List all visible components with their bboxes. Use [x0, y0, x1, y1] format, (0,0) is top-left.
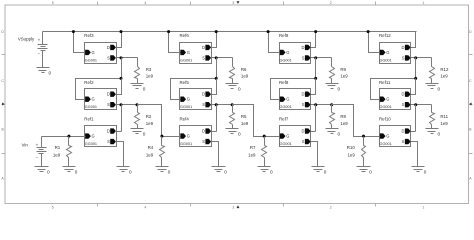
ground (below R3) — [131, 84, 146, 92]
subsystem Ref6 — [180, 33, 212, 64]
svg-text:G: G — [187, 50, 190, 55]
svg-text:GG001: GG001 — [280, 58, 292, 62]
svg-text:0: 0 — [168, 169, 171, 174]
svg-text:R12: R12 — [440, 67, 449, 72]
junction: rail at Ref9.D — [314, 30, 317, 33]
svg-text:GG001: GG001 — [85, 105, 97, 109]
svg-text:0: 0 — [270, 169, 273, 174]
wire: Ref2.S down to Ref1.D — [121, 105, 123, 132]
wire: Ref9.S down to Ref8 — [315, 58, 317, 79]
svg-text:G: G — [92, 134, 95, 139]
svg-text:0: 0 — [129, 169, 132, 174]
ground (below R6) — [226, 84, 242, 92]
subsystem Ref7 — [279, 117, 311, 147]
svg-text:0: 0 — [424, 169, 427, 174]
svg-text:G: G — [286, 97, 289, 102]
wire: Ref8.S to Ref10.G link — [332, 105, 380, 137]
svg-text:0: 0 — [143, 86, 146, 91]
wire: Ref9.D to supply rail — [311, 32, 316, 48]
svg-text:0: 0 — [324, 169, 327, 174]
svg-text:Ref2: Ref2 — [84, 80, 94, 85]
svg-text:D: D — [302, 45, 305, 50]
wire: Ref11.S down to Ref10.D — [415, 105, 417, 132]
resistor R9 — [330, 58, 349, 84]
svg-text:0: 0 — [438, 86, 441, 91]
junction: Ref11.S — [414, 103, 417, 106]
resistor R2 — [135, 105, 154, 129]
svg-text:D: D — [302, 92, 305, 97]
svg-text:1e9: 1e9 — [53, 153, 61, 158]
svg-text:S: S — [107, 102, 110, 107]
subsystem Ref11 — [379, 80, 411, 110]
ground (below R8) — [326, 129, 341, 137]
svg-text:3: 3 — [232, 1, 234, 5]
svg-text:D: D — [107, 45, 110, 50]
ground (below VSupply) — [37, 68, 52, 76]
wire: Ref5 gate loop — [171, 79, 217, 100]
wire: Ref11 gate loop — [371, 79, 416, 100]
ground (below R9) — [326, 84, 341, 92]
wire: Ref4.S to ground — [212, 142, 219, 167]
resistor R6 — [230, 58, 249, 84]
resistor R10 — [347, 137, 366, 167]
ground (below Ref1.S) — [117, 167, 133, 175]
wire: Ref2.D up to node — [117, 79, 122, 95]
svg-text:S: S — [402, 102, 405, 107]
ground (below R11) — [426, 129, 441, 137]
wire: Ref9.S node — [311, 57, 332, 59]
svg-text:4: 4 — [144, 1, 146, 5]
wire: Ref3.D to supply rail — [117, 32, 122, 48]
svg-text:0: 0 — [49, 71, 52, 76]
svg-text:Ref1: Ref1 — [84, 117, 94, 122]
resistor R4 — [146, 137, 165, 167]
svg-text:1: 1 — [423, 1, 425, 5]
wire: Ref2.S to Ref4.G link — [138, 105, 181, 137]
svg-text:D: D — [107, 129, 110, 134]
wire: Ref8.D up to node — [311, 79, 316, 95]
svg-text:1e9: 1e9 — [340, 121, 348, 126]
voltage source VSupply — [18, 32, 48, 68]
svg-text:GG001: GG001 — [280, 142, 292, 146]
svg-text:Ref4: Ref4 — [180, 117, 190, 122]
svg-text:G: G — [386, 97, 389, 102]
wire: Ref8.S node — [311, 104, 332, 106]
junction: Ref3.S — [120, 56, 123, 59]
svg-text:3: 3 — [232, 205, 234, 209]
subsystem Ref9 — [279, 33, 311, 64]
svg-text:Ref8: Ref8 — [279, 80, 289, 85]
wire: Ref3.S down to Ref2 — [121, 58, 123, 79]
wire: Ref12.D to supply rail — [411, 32, 416, 48]
junction: Ref5.D/G node — [215, 77, 218, 80]
resistor R3 — [135, 58, 154, 84]
subsystem Ref8 — [279, 80, 311, 110]
junction: rail at x=73.4 — [72, 30, 75, 33]
wire: Ref7.D to node — [311, 131, 316, 133]
junction: Ref2.S — [120, 103, 123, 106]
svg-text:2: 2 — [330, 205, 332, 209]
svg-text:G: G — [386, 50, 389, 55]
junction: Ref2.D/G node — [120, 77, 123, 80]
svg-text:G: G — [286, 50, 289, 55]
svg-text:R5: R5 — [241, 114, 247, 119]
svg-text:Ref7: Ref7 — [279, 117, 289, 122]
ground (below R10) — [357, 167, 373, 175]
svg-text:0: 0 — [75, 169, 78, 174]
svg-text:0: 0 — [224, 169, 227, 174]
junction: rail at x=268.1 — [267, 30, 270, 33]
svg-text:G: G — [187, 134, 190, 139]
junction: Ref11.D/G node — [414, 77, 417, 80]
junction: Ref12.S — [414, 56, 417, 59]
resistor R11 — [430, 105, 449, 129]
wire: Ref5.S to Ref7.G link — [233, 105, 280, 137]
svg-text:S: S — [107, 55, 110, 60]
svg-text:R3: R3 — [146, 67, 152, 72]
svg-text:GG001: GG001 — [180, 142, 192, 146]
junction: node at R5 — [231, 103, 234, 106]
ground (below R2) — [131, 129, 146, 137]
ground (below Ref10.S) — [412, 167, 427, 175]
svg-text:1e9: 1e9 — [146, 153, 154, 158]
wire: Ref10.S to ground — [411, 142, 418, 167]
wire: Ref8.S down to Ref7.D — [315, 105, 317, 132]
subsystem Ref4 — [180, 117, 212, 147]
wire: Ref5.S down to Ref4.D — [216, 105, 218, 132]
junction: node at R8 — [330, 103, 333, 106]
junction: Vin node at R1 — [67, 135, 70, 138]
ground (below R1) — [63, 167, 78, 175]
svg-text:GG001: GG001 — [180, 58, 192, 62]
svg-text:1e9: 1e9 — [440, 73, 448, 78]
svg-text:R2: R2 — [146, 114, 152, 119]
junction: Ref10.G node at R10 — [362, 135, 365, 138]
resistor R8 — [330, 105, 349, 129]
junction: Ref4.G node at R4 — [160, 135, 163, 138]
svg-text:GG001: GG001 — [380, 105, 392, 109]
svg-text:R6: R6 — [241, 67, 247, 72]
junction: rail at Ref3.D — [120, 30, 123, 33]
wire: Ref11.S node — [411, 104, 432, 106]
junction: Ref8.D/G node — [314, 77, 317, 80]
svg-text:Ref11: Ref11 — [379, 80, 391, 85]
junction: node at R2 — [136, 103, 139, 106]
ground (below Ref7.S) — [312, 167, 327, 175]
wire: Ref11.D up to node — [411, 79, 416, 95]
wire: Ref12.S down to Ref11 — [415, 58, 417, 79]
wire: Ref12.S node — [411, 57, 432, 59]
wire: Ref10.D to node — [411, 131, 416, 133]
wire: Ref1.D to node — [117, 131, 122, 133]
svg-text:G: G — [92, 97, 95, 102]
wire: Ref4.D to node — [212, 131, 217, 133]
svg-text:S: S — [402, 139, 405, 144]
svg-text:S: S — [302, 139, 305, 144]
ground (below R5) — [226, 129, 242, 137]
svg-text:R7: R7 — [250, 145, 256, 150]
subsystem Ref12 — [379, 33, 411, 64]
svg-text:GG001: GG001 — [85, 142, 97, 146]
ground (below R7) — [258, 167, 274, 175]
svg-text:0: 0 — [338, 132, 341, 137]
svg-text:0: 0 — [238, 86, 241, 91]
svg-text:S: S — [202, 102, 205, 107]
svg-text:GG001: GG001 — [380, 142, 392, 146]
wire: Ref1.S to ground — [117, 142, 124, 167]
svg-text:R9: R9 — [340, 67, 346, 72]
svg-text:S: S — [202, 139, 205, 144]
resistor R1 — [53, 137, 72, 167]
svg-text:D: D — [202, 45, 205, 50]
wire: Ref7.S to ground — [311, 142, 318, 167]
subsystem Ref5 — [180, 80, 212, 110]
svg-text:1e9: 1e9 — [248, 153, 256, 158]
svg-text:S: S — [302, 55, 305, 60]
svg-text:1e9: 1e9 — [241, 121, 249, 126]
voltage source Vin — [22, 137, 47, 167]
svg-text:1: 1 — [423, 205, 425, 209]
wire: supply rail to Ref9.G — [269, 32, 280, 53]
svg-text:D: D — [202, 129, 205, 134]
junction: Ref7.G node at R7 — [263, 135, 266, 138]
ground (below Vin) — [35, 167, 51, 175]
svg-text:S: S — [107, 139, 110, 144]
svg-text:2: 2 — [330, 1, 332, 5]
ground (below Ref4.S) — [212, 167, 228, 175]
svg-text:1e9: 1e9 — [146, 121, 154, 126]
wire: supply rail to Ref6.G — [169, 32, 181, 53]
svg-text:1e9: 1e9 — [340, 73, 348, 78]
resistor R5 — [230, 105, 249, 129]
subsystem Ref2 — [84, 80, 116, 110]
svg-text:Ref9: Ref9 — [279, 33, 289, 38]
junction: Ref8.S — [314, 103, 317, 106]
resistor R7 — [248, 137, 266, 167]
svg-text:R4: R4 — [148, 145, 154, 150]
svg-text:5: 5 — [52, 205, 54, 209]
wire: supply rail to Ref12.G — [369, 32, 380, 53]
wire: Ref6.S down to Ref5 — [216, 58, 218, 79]
wire: Ref3.S node — [117, 57, 138, 59]
svg-text:4: 4 — [144, 205, 146, 209]
subsystem Ref1 — [84, 117, 116, 147]
wire: Ref8 gate loop — [271, 79, 316, 100]
svg-text:GG001: GG001 — [85, 58, 97, 62]
svg-text:0: 0 — [438, 132, 441, 137]
svg-text:Ref5: Ref5 — [180, 80, 190, 85]
svg-text:R10: R10 — [347, 145, 356, 150]
svg-text:Ref3: Ref3 — [84, 33, 94, 38]
svg-text:S: S — [402, 55, 405, 60]
svg-text:GG001: GG001 — [380, 58, 392, 62]
wire: Ref5.D up to node — [212, 79, 217, 95]
svg-text:G: G — [286, 134, 289, 139]
svg-text:Ref10: Ref10 — [379, 117, 391, 122]
svg-text:R1: R1 — [55, 145, 61, 150]
svg-text:G: G — [92, 50, 95, 55]
svg-text:0: 0 — [47, 169, 50, 174]
svg-text:1e9: 1e9 — [241, 73, 249, 78]
junction: rail at Ref6.D — [215, 30, 218, 33]
svg-text:0: 0 — [238, 132, 241, 137]
svg-text:Vin: Vin — [22, 143, 29, 148]
svg-text:1e9: 1e9 — [347, 153, 355, 158]
svg-text:Ref12: Ref12 — [379, 33, 391, 38]
svg-text:VSupply: VSupply — [18, 37, 35, 42]
svg-text:0: 0 — [143, 132, 146, 137]
wire: supply rail to Ref3.G — [74, 32, 86, 53]
wire: Vin to Ref1.G — [42, 136, 86, 138]
svg-text:1e9: 1e9 — [146, 73, 154, 78]
junction: rail col4 gate tap — [367, 30, 370, 33]
junction: Ref9.S — [314, 56, 317, 59]
subsystem Ref10 — [379, 117, 411, 147]
svg-text:D: D — [107, 92, 110, 97]
svg-text:S: S — [302, 102, 305, 107]
svg-text:D: D — [202, 92, 205, 97]
wire: Ref6.S node — [212, 57, 233, 59]
svg-text:1e9: 1e9 — [440, 121, 448, 126]
wire: Ref5.S node — [212, 104, 233, 106]
resistor R12 — [430, 58, 450, 84]
svg-text:D: D — [302, 129, 305, 134]
svg-text:R11: R11 — [440, 114, 448, 119]
junction: Ref5.S — [215, 103, 218, 106]
wire: Ref2 gate loop — [76, 79, 122, 100]
subsystem Ref3 — [84, 33, 116, 64]
junction: rail at x=168.6 — [167, 30, 170, 33]
ground (below R4) — [156, 167, 171, 175]
svg-text:R8: R8 — [340, 114, 346, 119]
svg-text:Ref6: Ref6 — [180, 33, 190, 38]
svg-text:0: 0 — [338, 86, 341, 91]
wire: Ref2.S node — [117, 104, 138, 106]
svg-text:G: G — [187, 97, 190, 102]
svg-text:D: D — [402, 129, 405, 134]
svg-text:D: D — [402, 45, 405, 50]
svg-text:D: D — [402, 92, 405, 97]
svg-text:G: G — [386, 134, 389, 139]
wire: VSupply top rail — [43, 31, 417, 33]
junction: Ref6.S — [215, 56, 218, 59]
wire: Ref6.D to supply rail — [212, 32, 217, 48]
ground (below R12) — [426, 84, 441, 92]
svg-text:0: 0 — [369, 169, 372, 174]
svg-text:5: 5 — [52, 1, 54, 5]
svg-text:GG001: GG001 — [180, 105, 192, 109]
svg-text:GG001: GG001 — [280, 105, 292, 109]
svg-text:S: S — [202, 55, 205, 60]
